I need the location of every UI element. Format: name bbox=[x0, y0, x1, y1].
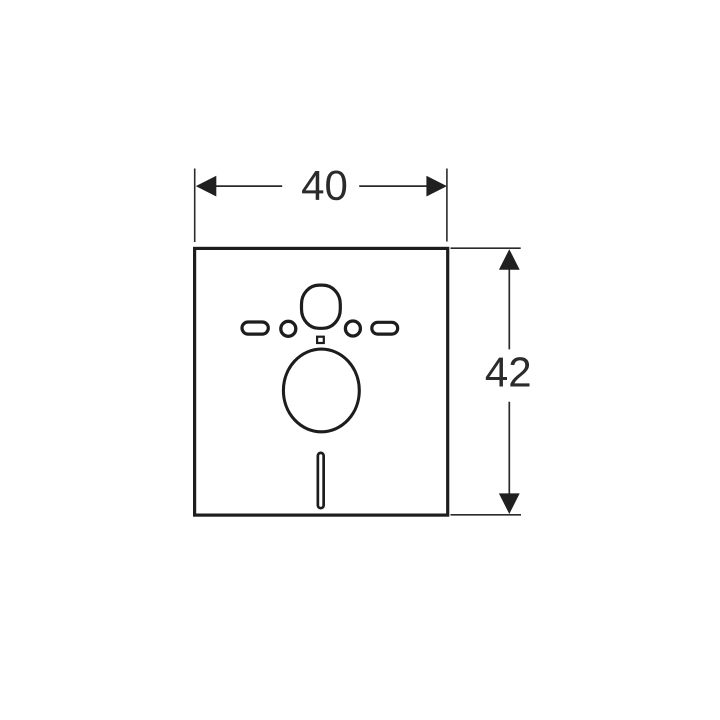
svg-text:42: 42 bbox=[485, 348, 532, 395]
svg-text:40: 40 bbox=[301, 162, 348, 209]
